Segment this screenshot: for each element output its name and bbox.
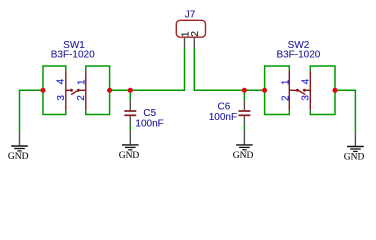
svg-text:GND: GND bbox=[344, 153, 365, 163]
ground bbox=[233, 130, 254, 161]
wire bbox=[129, 125, 131, 129]
switch SW1 bbox=[66, 71, 86, 111]
capacitor C5 bbox=[124, 100, 136, 125]
svg-text:C5: C5 bbox=[143, 108, 156, 119]
svg-text:2: 2 bbox=[190, 31, 201, 37]
junction bbox=[40, 88, 45, 93]
svg-text:1: 1 bbox=[281, 79, 292, 85]
wire bbox=[265, 66, 290, 115]
svg-text:100nF: 100nF bbox=[209, 112, 237, 123]
svg-text:2: 2 bbox=[76, 95, 87, 101]
wire bbox=[243, 90, 245, 100]
junction bbox=[242, 88, 247, 93]
svg-text:100nF: 100nF bbox=[135, 118, 163, 129]
junction bbox=[107, 88, 112, 93]
junction bbox=[128, 88, 133, 93]
connector J7 bbox=[176, 20, 205, 48]
svg-text:3: 3 bbox=[300, 95, 311, 101]
wire bbox=[86, 66, 110, 115]
svg-text:C6: C6 bbox=[218, 102, 231, 113]
junction bbox=[262, 88, 267, 93]
svg-text:4: 4 bbox=[300, 78, 311, 84]
wire bbox=[20, 90, 44, 132]
junction bbox=[332, 88, 337, 93]
svg-text:3: 3 bbox=[56, 95, 67, 101]
switch SW2 bbox=[289, 71, 310, 111]
svg-text:B3F-1020: B3F-1020 bbox=[276, 50, 320, 61]
ground bbox=[119, 130, 140, 161]
svg-text:GND: GND bbox=[119, 151, 140, 161]
svg-text:1: 1 bbox=[77, 79, 88, 85]
ground bbox=[8, 133, 29, 162]
capacitor C6 bbox=[238, 100, 250, 125]
svg-text:B3F-1020: B3F-1020 bbox=[51, 50, 95, 61]
svg-text:4: 4 bbox=[56, 78, 67, 84]
svg-text:GND: GND bbox=[233, 151, 254, 161]
wire bbox=[43, 66, 66, 115]
svg-text:GND: GND bbox=[8, 152, 29, 162]
wire bbox=[335, 90, 355, 133]
wire bbox=[310, 66, 335, 115]
svg-text:2: 2 bbox=[281, 95, 292, 101]
ground bbox=[344, 133, 365, 162]
svg-text:J7: J7 bbox=[185, 10, 196, 21]
wire bbox=[243, 125, 245, 129]
wire bbox=[110, 49, 185, 91]
wire bbox=[129, 90, 131, 100]
wire bbox=[194, 49, 264, 91]
